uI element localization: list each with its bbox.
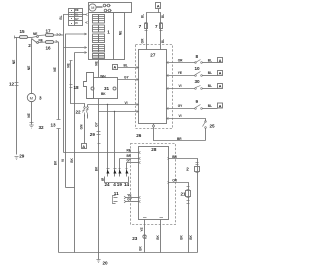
connector stack d bbox=[93, 45, 105, 53]
svg-text:26: 26 bbox=[136, 133, 142, 138]
svg-text:OR: OR bbox=[172, 179, 177, 183]
switch 9 bbox=[195, 105, 203, 110]
box A mid bbox=[113, 65, 118, 70]
svg-text:22: 22 bbox=[76, 110, 82, 115]
svg-text:RE: RE bbox=[75, 8, 79, 12]
connector 23 bbox=[143, 235, 147, 239]
svg-text:31: 31 bbox=[104, 86, 110, 91]
wire 17 row bbox=[39, 34, 46, 37]
svg-text:BL: BL bbox=[161, 39, 165, 43]
row VI to switch 25 bbox=[167, 119, 206, 121]
svg-text:2: 2 bbox=[28, 43, 31, 48]
box A top bbox=[156, 3, 161, 9]
wire 22 right pole stub bbox=[87, 115, 89, 119]
svg-text:BL: BL bbox=[141, 14, 145, 18]
BR wire to fuse 2 bbox=[169, 159, 198, 253]
connector stack c bbox=[93, 34, 105, 43]
svg-text:BK: BK bbox=[70, 158, 74, 163]
svg-text:YE: YE bbox=[178, 71, 182, 75]
right bottom wire bbox=[160, 220, 162, 253]
svg-text:BK: BK bbox=[179, 235, 183, 240]
bus wire bbox=[59, 252, 198, 254]
svg-text:YE: YE bbox=[140, 227, 144, 231]
switch 22 bbox=[83, 107, 89, 117]
svg-text:14: 14 bbox=[124, 182, 130, 187]
svg-text:BK: BK bbox=[53, 160, 57, 165]
svg-text:NE: NE bbox=[27, 113, 31, 117]
wire fuse15 to node 2 bbox=[28, 37, 32, 39]
svg-text:16: 16 bbox=[46, 45, 52, 50]
wire 18 vertical bbox=[70, 61, 85, 107]
svg-text:M: M bbox=[91, 6, 94, 10]
svg-text:2: 2 bbox=[186, 167, 189, 172]
svg-text:BK: BK bbox=[94, 166, 98, 171]
svg-text:9: 9 bbox=[196, 99, 199, 104]
svg-text:NE: NE bbox=[53, 67, 57, 71]
svg-text:BK: BK bbox=[101, 92, 106, 96]
contact circles bbox=[103, 4, 111, 12]
connector after 17 bbox=[57, 33, 61, 36]
svg-text:NE: NE bbox=[118, 31, 122, 35]
svg-text:17: 17 bbox=[46, 29, 52, 34]
svg-text:VI: VI bbox=[179, 84, 182, 88]
wire node 2 to motor 3 bbox=[31, 39, 33, 94]
svg-text:20: 20 bbox=[103, 261, 109, 266]
svg-text:18: 18 bbox=[74, 85, 80, 90]
connector 13 bbox=[57, 120, 61, 129]
svg-text:21: 21 bbox=[181, 191, 187, 196]
diode 24 bbox=[107, 104, 110, 177]
svg-text:15: 15 bbox=[20, 29, 26, 34]
svg-text:NE: NE bbox=[27, 66, 31, 70]
svg-text:13: 13 bbox=[51, 123, 57, 128]
svg-text:3: 3 bbox=[39, 96, 42, 101]
svg-text:VI: VI bbox=[61, 159, 65, 162]
svg-text:BL: BL bbox=[208, 84, 212, 88]
svg-text:BL: BL bbox=[161, 14, 165, 18]
svg-text:VI: VI bbox=[75, 21, 78, 25]
svg-text:BR: BR bbox=[177, 137, 182, 141]
17-out jog to bus bbox=[66, 187, 75, 189]
wire feed to fuse 15 bbox=[15, 36, 20, 39]
switch 30 bbox=[195, 86, 203, 90]
right pins bbox=[168, 158, 170, 184]
right pins bbox=[167, 62, 169, 120]
connector stack e bbox=[93, 54, 105, 59]
svg-text:BK: BK bbox=[139, 246, 143, 251]
fuse F15 bbox=[20, 36, 28, 39]
row 9 bbox=[167, 108, 218, 110]
box 27 bbox=[139, 50, 167, 124]
svg-text:7: 7 bbox=[155, 24, 158, 29]
svg-text:VI: VI bbox=[125, 101, 128, 105]
row 10 bbox=[167, 75, 218, 77]
svg-text:A: A bbox=[219, 103, 222, 108]
svg-text:28: 28 bbox=[151, 147, 157, 152]
box 31 bbox=[94, 78, 118, 99]
ground 29 bbox=[15, 157, 19, 160]
svg-text:BL: BL bbox=[208, 71, 212, 75]
svg-text:A: A bbox=[219, 70, 222, 75]
diode 4 bbox=[114, 111, 117, 177]
OR wire to 21 bbox=[169, 183, 189, 253]
wire 25 bottom bbox=[205, 129, 207, 141]
dashed box 26 bbox=[136, 45, 173, 129]
svg-text:NE: NE bbox=[12, 60, 16, 64]
svg-text:BK: BK bbox=[156, 235, 160, 240]
GY wire from diode 14 bbox=[127, 162, 139, 164]
top box bbox=[89, 3, 132, 13]
left pins bbox=[137, 67, 139, 113]
box1 left pin y34 bbox=[85, 33, 87, 35]
svg-text:25: 25 bbox=[210, 124, 216, 129]
diode 19 bbox=[119, 159, 122, 177]
BR wire from diode 19 bbox=[120, 158, 139, 160]
GY wire bbox=[126, 201, 139, 203]
svg-text:BL: BL bbox=[208, 59, 212, 63]
diode 14 bbox=[126, 163, 129, 177]
connector stack b bbox=[93, 25, 105, 32]
fuse 2 bbox=[195, 165, 200, 173]
svg-text:10: 10 bbox=[195, 66, 201, 71]
bottom pin to switch 25 bbox=[154, 124, 206, 141]
ground 32 bbox=[29, 123, 34, 129]
left pins bbox=[139, 152, 141, 203]
svg-text:BR: BR bbox=[172, 155, 177, 159]
svg-text:BL: BL bbox=[124, 64, 128, 68]
bottom pins bbox=[143, 217, 163, 219]
connector 18 bbox=[70, 85, 73, 88]
wire below motor bbox=[31, 102, 33, 125]
connector stack a bbox=[93, 15, 105, 24]
wires down bbox=[147, 9, 161, 50]
svg-text:VI: VI bbox=[179, 114, 182, 118]
ground 20 bbox=[96, 253, 100, 263]
wire box1 pin34 left down to bus jog bbox=[66, 34, 87, 188]
RE wire bbox=[64, 152, 139, 154]
svg-text:30: 30 bbox=[195, 79, 201, 84]
GY wire from 31 top to box 27 bbox=[118, 79, 139, 81]
svg-text:A: A bbox=[82, 144, 85, 149]
svg-text:19: 19 bbox=[117, 182, 123, 187]
fuse 7 right bbox=[160, 23, 163, 31]
connector 29 inline bbox=[97, 132, 101, 135]
wire box1 to relay 31 and ground 20 bbox=[98, 60, 100, 253]
component 21 bbox=[186, 190, 191, 198]
svg-text:OR: OR bbox=[178, 59, 183, 63]
connector 12 bbox=[15, 83, 19, 86]
wire to ground 29 bbox=[16, 38, 18, 155]
svg-text:M: M bbox=[30, 95, 33, 100]
svg-text:32: 32 bbox=[39, 125, 45, 130]
box1 left pin y23 bbox=[86, 22, 88, 24]
plug box bbox=[84, 73, 94, 99]
row 30 bbox=[167, 88, 218, 90]
svg-text:BK: BK bbox=[189, 235, 193, 240]
svg-text:23: 23 bbox=[132, 236, 138, 241]
switch 8 bbox=[195, 60, 203, 64]
svg-text:WH: WH bbox=[100, 75, 106, 79]
svg-text:NE: NE bbox=[33, 32, 37, 36]
svg-text:1: 1 bbox=[107, 29, 110, 34]
svg-text:OR: OR bbox=[141, 38, 145, 43]
wire y99.4 from switch22 to box27 bbox=[88, 105, 139, 112]
wire 13 down to bus bbox=[58, 129, 60, 253]
YE wire bbox=[126, 197, 139, 199]
svg-text:GN: GN bbox=[80, 124, 84, 129]
wire 16 out to corner down bbox=[54, 42, 59, 120]
node 2 split bbox=[32, 36, 39, 44]
svg-text:NE: NE bbox=[94, 61, 98, 65]
fuse 7 left bbox=[145, 23, 148, 31]
svg-text:12: 12 bbox=[9, 81, 15, 86]
link bars bbox=[97, 7, 103, 8]
svg-text:A: A bbox=[219, 58, 222, 63]
svg-text:24: 24 bbox=[105, 182, 111, 187]
svg-text:29: 29 bbox=[19, 154, 25, 159]
svg-text:BR: BR bbox=[127, 154, 132, 158]
bracket bbox=[105, 177, 129, 183]
svg-text:NE: NE bbox=[67, 63, 71, 67]
wire 22 left pole down to box A bbox=[84, 115, 86, 144]
svg-text:7: 7 bbox=[139, 24, 142, 29]
fuse F17 bbox=[46, 34, 54, 37]
box1 left pin y14 bbox=[86, 14, 88, 16]
fuse F16 bbox=[46, 41, 54, 44]
wire 17 out joins vertical bbox=[54, 34, 64, 36]
wire 16 row bbox=[39, 41, 46, 44]
box A under 22 bbox=[82, 144, 87, 149]
svg-text:A: A bbox=[219, 84, 222, 89]
switch 10 bbox=[195, 72, 203, 77]
svg-text:29: 29 bbox=[90, 132, 96, 137]
terminals bbox=[91, 87, 116, 90]
svg-text:4: 4 bbox=[113, 182, 116, 187]
svg-text:BL: BL bbox=[208, 104, 212, 108]
motor circle bbox=[89, 4, 96, 11]
switch 25 bbox=[203, 121, 207, 129]
svg-text:BL: BL bbox=[59, 15, 63, 19]
wire from pin y14 left and down to RE corner bbox=[64, 15, 87, 253]
motor M3 bbox=[27, 93, 35, 101]
svg-text:8: 8 bbox=[196, 54, 199, 59]
svg-text:27: 27 bbox=[150, 52, 156, 57]
svg-text:A: A bbox=[113, 65, 116, 70]
left bottom wire via conn 23 bbox=[144, 220, 146, 253]
svg-text:GY: GY bbox=[75, 17, 79, 21]
svg-text:A: A bbox=[157, 3, 160, 8]
main box 1 bbox=[89, 13, 125, 60]
row 8 bbox=[167, 62, 218, 64]
